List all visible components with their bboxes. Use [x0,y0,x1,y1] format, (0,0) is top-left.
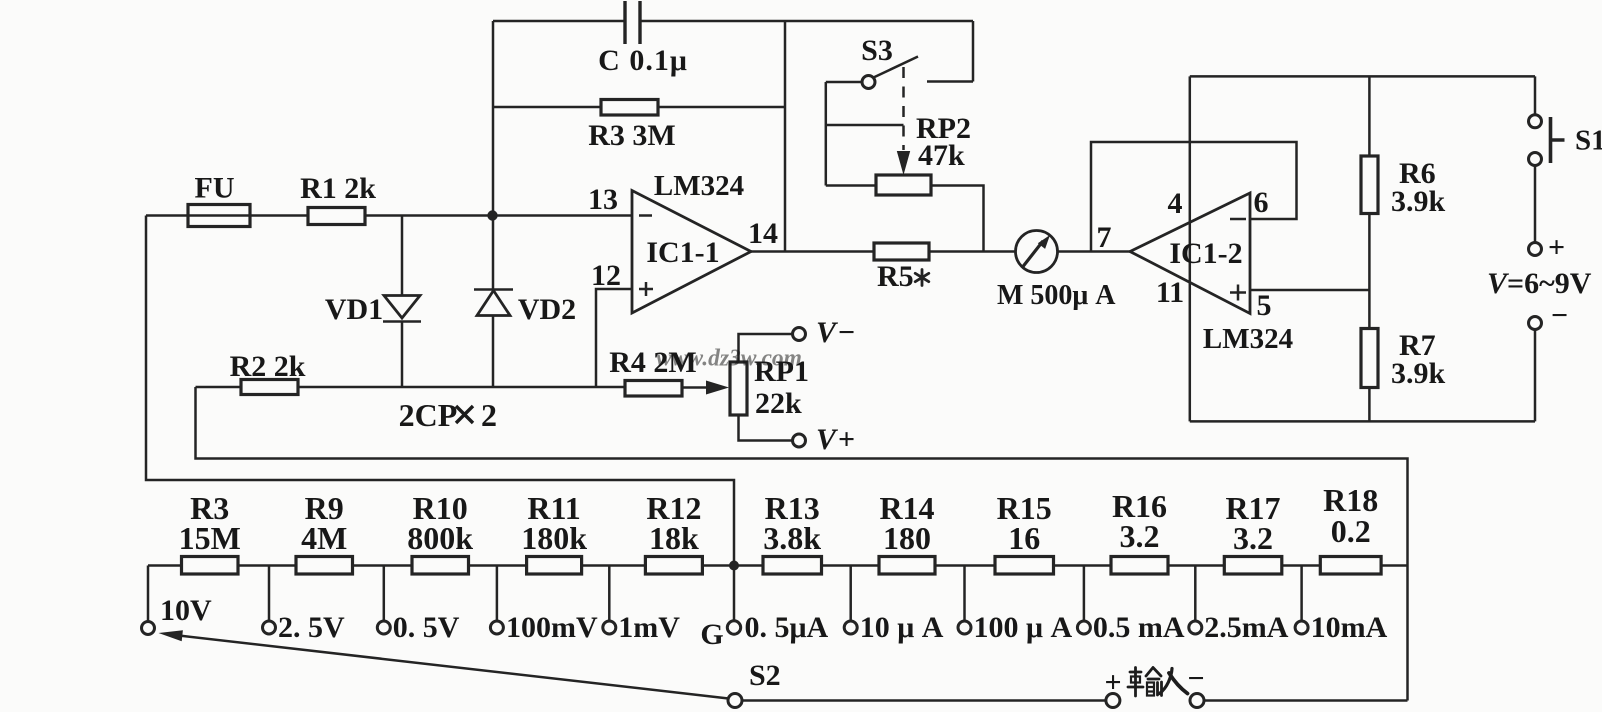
svg-text:G: G [700,618,723,651]
svg-text:0. 5μA: 0. 5μA [745,611,829,644]
svg-text:R3 3M: R3 3M [588,119,675,152]
svg-text:S3: S3 [861,34,893,67]
svg-text:22k: 22k [755,387,802,420]
svg-text:2.5mA: 2.5mA [1204,611,1288,644]
svg-text:−: − [838,316,855,349]
svg-text:+: + [838,423,855,456]
svg-text:0.2: 0.2 [1331,513,1371,549]
svg-text:7: 7 [1097,221,1112,254]
svg-text:10mA: 10mA [1311,611,1388,644]
svg-text:R2 2k: R2 2k [230,350,306,383]
svg-text:C 0.1μ: C 0.1μ [598,44,688,77]
svg-text:2. 5V: 2. 5V [278,611,345,644]
svg-text:12: 12 [591,259,621,292]
svg-text:1mV: 1mV [618,611,680,644]
svg-text:3.8k: 3.8k [763,520,821,556]
svg-text:S1: S1 [1575,125,1602,157]
svg-text:IC1-1: IC1-1 [646,236,719,269]
svg-text:0. 5V: 0. 5V [393,611,460,644]
svg-text:3.2: 3.2 [1120,518,1160,554]
svg-text:0.5 mA: 0.5 mA [1093,611,1185,644]
svg-text:V: V [816,316,839,349]
svg-text:2: 2 [481,397,497,433]
svg-text:47k: 47k [918,139,965,172]
svg-text:FU: FU [195,172,235,205]
svg-text:S2: S2 [749,659,781,692]
svg-text:4M: 4M [301,520,347,556]
svg-text:100 μ A: 100 μ A [974,611,1073,644]
svg-text:4: 4 [1168,187,1183,220]
svg-text:18k: 18k [649,520,699,556]
svg-text:15M: 15M [179,520,241,556]
svg-text:+: + [1548,231,1565,264]
svg-text:R5: R5 [877,260,914,293]
svg-text:www.dz3w.com: www.dz3w.com [656,346,802,372]
svg-text:3.9k: 3.9k [1391,185,1446,218]
svg-text:IC1-2: IC1-2 [1169,237,1242,270]
svg-text:−: − [1551,299,1568,332]
svg-text:16: 16 [1008,520,1040,556]
svg-text:VD2: VD2 [518,293,576,326]
svg-text:=6~9V: =6~9V [1507,267,1592,300]
svg-text:2CP: 2CP [399,397,458,433]
svg-text:14: 14 [748,217,778,250]
svg-text:3.9k: 3.9k [1391,357,1446,390]
svg-text:10V: 10V [160,594,212,627]
svg-text:3.2: 3.2 [1233,520,1273,556]
svg-text:5: 5 [1257,289,1272,322]
svg-text:R1 2k: R1 2k [300,172,376,205]
svg-text:10 μ A: 10 μ A [860,611,944,644]
svg-text:180k: 180k [521,520,587,556]
svg-text:13: 13 [588,183,618,216]
svg-text:V: V [816,423,839,456]
svg-text:800k: 800k [407,520,473,556]
svg-text:LM324: LM324 [1203,323,1293,355]
svg-text:11: 11 [1156,276,1184,309]
svg-text:−: − [1187,662,1204,695]
svg-text:6: 6 [1254,186,1269,219]
svg-text:VD1: VD1 [325,293,383,326]
svg-text:100mV: 100mV [506,611,598,644]
svg-text:+: + [1104,666,1121,699]
svg-text:M 500μ A: M 500μ A [997,280,1116,311]
svg-text:180: 180 [883,520,931,556]
svg-text:LM324: LM324 [654,170,744,202]
